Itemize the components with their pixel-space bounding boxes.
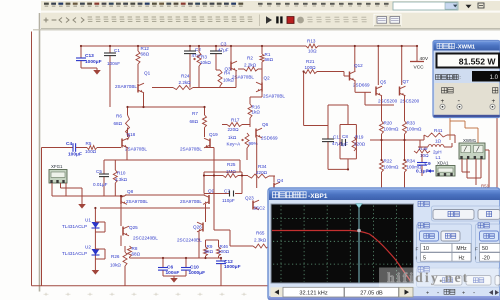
svg-text:C8: C8 xyxy=(342,134,348,139)
svg-text:-XBP1: -XBP1 xyxy=(308,193,328,200)
svg-text:R3: R3 xyxy=(201,55,207,60)
svg-text:10kΩ: 10kΩ xyxy=(200,60,211,65)
svg-text:47μF: 47μF xyxy=(218,48,229,53)
svg-text:220Ω: 220Ω xyxy=(256,170,268,175)
svg-text:C3: C3 xyxy=(221,42,227,47)
svg-text:-: - xyxy=(437,290,439,297)
svg-text:100mΩ: 100mΩ xyxy=(384,127,399,132)
svg-text:TL431ACLP: TL431ACLP xyxy=(62,251,87,256)
svg-text:5: 5 xyxy=(423,255,426,261)
svg-text:C10: C10 xyxy=(190,265,199,271)
svg-text:2μH: 2μH xyxy=(433,150,442,155)
svg-text:0.01μF: 0.01μF xyxy=(93,182,108,187)
svg-text:R26: R26 xyxy=(111,254,120,259)
svg-text:100μF: 100μF xyxy=(68,152,82,158)
svg-text:Q1: Q1 xyxy=(144,71,151,76)
svg-text:2SD669: 2SD669 xyxy=(353,83,370,88)
svg-text:R21: R21 xyxy=(306,59,315,64)
svg-text:MHz: MHz xyxy=(456,246,467,252)
svg-text:+: + xyxy=(462,291,465,297)
svg-text:2SA970BL: 2SA970BL xyxy=(232,75,254,80)
svg-text:2SC2240BL: 2SC2240BL xyxy=(133,236,158,241)
svg-text:100nF: 100nF xyxy=(166,270,180,276)
svg-text:-: - xyxy=(473,290,475,297)
svg-text:-XWM1: -XWM1 xyxy=(456,45,476,51)
svg-text:I: I xyxy=(475,256,476,261)
svg-text:R25: R25 xyxy=(227,162,236,167)
svg-text:68Ω: 68Ω xyxy=(190,119,199,124)
svg-text:2SA970BL: 2SA970BL xyxy=(180,199,202,204)
svg-text:Hz: Hz xyxy=(458,255,465,261)
svg-text:TL431ACLP: TL431ACLP xyxy=(62,224,87,229)
svg-text:2SC5200: 2SC5200 xyxy=(400,99,420,104)
svg-text:R12: R12 xyxy=(141,46,150,51)
svg-text:C4: C4 xyxy=(66,141,72,147)
svg-text:F: F xyxy=(475,247,478,252)
svg-text:C6: C6 xyxy=(167,265,173,271)
svg-text:2SA970BL: 2SA970BL xyxy=(115,84,137,89)
svg-text:C9: C9 xyxy=(425,161,431,167)
svg-text:1kΩ: 1kΩ xyxy=(228,135,237,140)
svg-text:2SC5200: 2SC5200 xyxy=(378,99,398,104)
svg-text:2SD669: 2SD669 xyxy=(261,136,278,141)
svg-text:Key=A: Key=A xyxy=(227,142,242,147)
svg-text:R34: R34 xyxy=(407,159,416,164)
svg-text:R34: R34 xyxy=(258,164,267,169)
svg-text:2SC2: 2SC2 xyxy=(254,206,266,211)
svg-text:Q26: Q26 xyxy=(193,225,202,230)
svg-text:R10: R10 xyxy=(117,171,126,176)
svg-text:100nF: 100nF xyxy=(107,61,120,66)
svg-text:R13: R13 xyxy=(307,39,316,44)
svg-text:1000μF: 1000μF xyxy=(85,59,102,65)
svg-text:Q6: Q6 xyxy=(262,122,269,127)
svg-text:68Ω: 68Ω xyxy=(265,57,274,62)
svg-text:C2: C2 xyxy=(195,47,201,52)
svg-text:-20: -20 xyxy=(482,255,490,261)
svg-text:2SA970BL: 2SA970BL xyxy=(263,94,285,99)
svg-text:R65: R65 xyxy=(256,231,265,236)
svg-text:1Ω: 1Ω xyxy=(435,139,442,144)
svg-text:1000μF: 1000μF xyxy=(224,264,241,270)
svg-text:1μF: 1μF xyxy=(340,142,348,147)
svg-text:C13: C13 xyxy=(85,53,94,59)
svg-text:R2: R2 xyxy=(247,56,253,61)
svg-text:U2: U2 xyxy=(85,245,91,250)
svg-text:R5: R5 xyxy=(86,141,92,146)
svg-text:L1: L1 xyxy=(436,155,442,160)
svg-text:100Ω: 100Ω xyxy=(85,149,97,154)
svg-text:XWM1: XWM1 xyxy=(463,138,477,143)
svg-text:68Ω: 68Ω xyxy=(205,249,214,254)
svg-text:R7: R7 xyxy=(192,111,198,116)
svg-text:2.2kΩ: 2.2kΩ xyxy=(179,80,192,85)
svg-text:I: I xyxy=(416,256,417,261)
svg-text:U1: U1 xyxy=(85,218,91,223)
svg-text:C1: C1 xyxy=(114,48,120,53)
svg-text:R19: R19 xyxy=(355,135,364,140)
svg-text:2SA970BL: 2SA970BL xyxy=(180,147,202,152)
svg-text:R20: R20 xyxy=(384,121,393,126)
svg-text:2.3kΩ: 2.3kΩ xyxy=(115,177,128,182)
svg-text:68Ω: 68Ω xyxy=(132,252,141,257)
svg-text:68Ω: 68Ω xyxy=(141,52,150,57)
svg-text:Q19: Q19 xyxy=(209,132,218,137)
svg-text:Q25: Q25 xyxy=(129,225,138,230)
svg-text:VCC: VCC xyxy=(414,65,425,71)
svg-text:1000μF: 1000μF xyxy=(189,270,206,276)
svg-text:1.0: 1.0 xyxy=(490,75,499,81)
svg-text:10Ω: 10Ω xyxy=(308,49,317,54)
svg-text:C7: C7 xyxy=(224,189,230,194)
svg-text:Q4: Q4 xyxy=(277,178,284,183)
svg-text:2SA970BL: 2SA970BL xyxy=(126,199,148,204)
svg-text:2SC2240BL: 2SC2240BL xyxy=(177,238,202,243)
svg-text:100mΩ: 100mΩ xyxy=(407,127,422,132)
svg-text:110pF: 110pF xyxy=(222,198,235,203)
svg-text:40V: 40V xyxy=(420,56,429,62)
svg-text:Q12: Q12 xyxy=(354,63,363,68)
svg-text:XFG1: XFG1 xyxy=(51,164,63,169)
svg-text:R6: R6 xyxy=(116,114,122,119)
svg-text:XDA1: XDA1 xyxy=(437,161,449,166)
svg-text:100Ω: 100Ω xyxy=(305,65,317,70)
svg-text:R41: R41 xyxy=(434,128,443,133)
svg-text:Q5: Q5 xyxy=(380,80,387,85)
svg-text:50: 50 xyxy=(482,246,488,252)
svg-text:Q23: Q23 xyxy=(245,196,254,201)
svg-text:Q7: Q7 xyxy=(403,79,410,84)
svg-text:100Ω: 100Ω xyxy=(218,249,230,254)
svg-text:2.3kΩ: 2.3kΩ xyxy=(254,238,267,243)
svg-text:81.552 W: 81.552 W xyxy=(459,56,497,66)
svg-text:2.2kΩ: 2.2kΩ xyxy=(244,63,257,68)
svg-text:R33: R33 xyxy=(407,121,416,126)
svg-text:10: 10 xyxy=(423,246,429,252)
svg-text:32.121 kHz: 32.121 kHz xyxy=(299,290,327,296)
svg-text:0.1μF: 0.1μF xyxy=(416,169,429,175)
svg-text:Q8: Q8 xyxy=(127,189,134,194)
svg-text:Q3: Q3 xyxy=(225,67,232,72)
svg-text:R22: R22 xyxy=(384,159,393,164)
svg-text:220Ω: 220Ω xyxy=(354,142,366,147)
svg-text:220Ω: 220Ω xyxy=(228,127,240,132)
svg-text:Q18: Q18 xyxy=(127,132,136,137)
svg-text:R24: R24 xyxy=(181,74,190,79)
svg-text:F: F xyxy=(416,247,419,252)
svg-text:C5: C5 xyxy=(96,169,102,174)
svg-text:R8: R8 xyxy=(132,246,138,251)
svg-text:2SA970BL: 2SA970BL xyxy=(125,147,147,152)
svg-text:10kΩ: 10kΩ xyxy=(110,263,121,268)
svg-text:1kΩ: 1kΩ xyxy=(252,110,261,115)
svg-text:R17: R17 xyxy=(231,118,240,123)
svg-text:68Ω: 68Ω xyxy=(114,121,123,126)
svg-text:+: + xyxy=(426,291,429,297)
svg-text:27.05 dB: 27.05 dB xyxy=(360,290,383,296)
svg-text:hifidiy.net: hifidiy.net xyxy=(387,270,469,285)
svg-text::: : xyxy=(459,75,460,81)
svg-text:Q2: Q2 xyxy=(264,76,271,81)
svg-text:10Ω: 10Ω xyxy=(420,153,429,158)
svg-text:100mΩ: 100mΩ xyxy=(384,165,399,170)
